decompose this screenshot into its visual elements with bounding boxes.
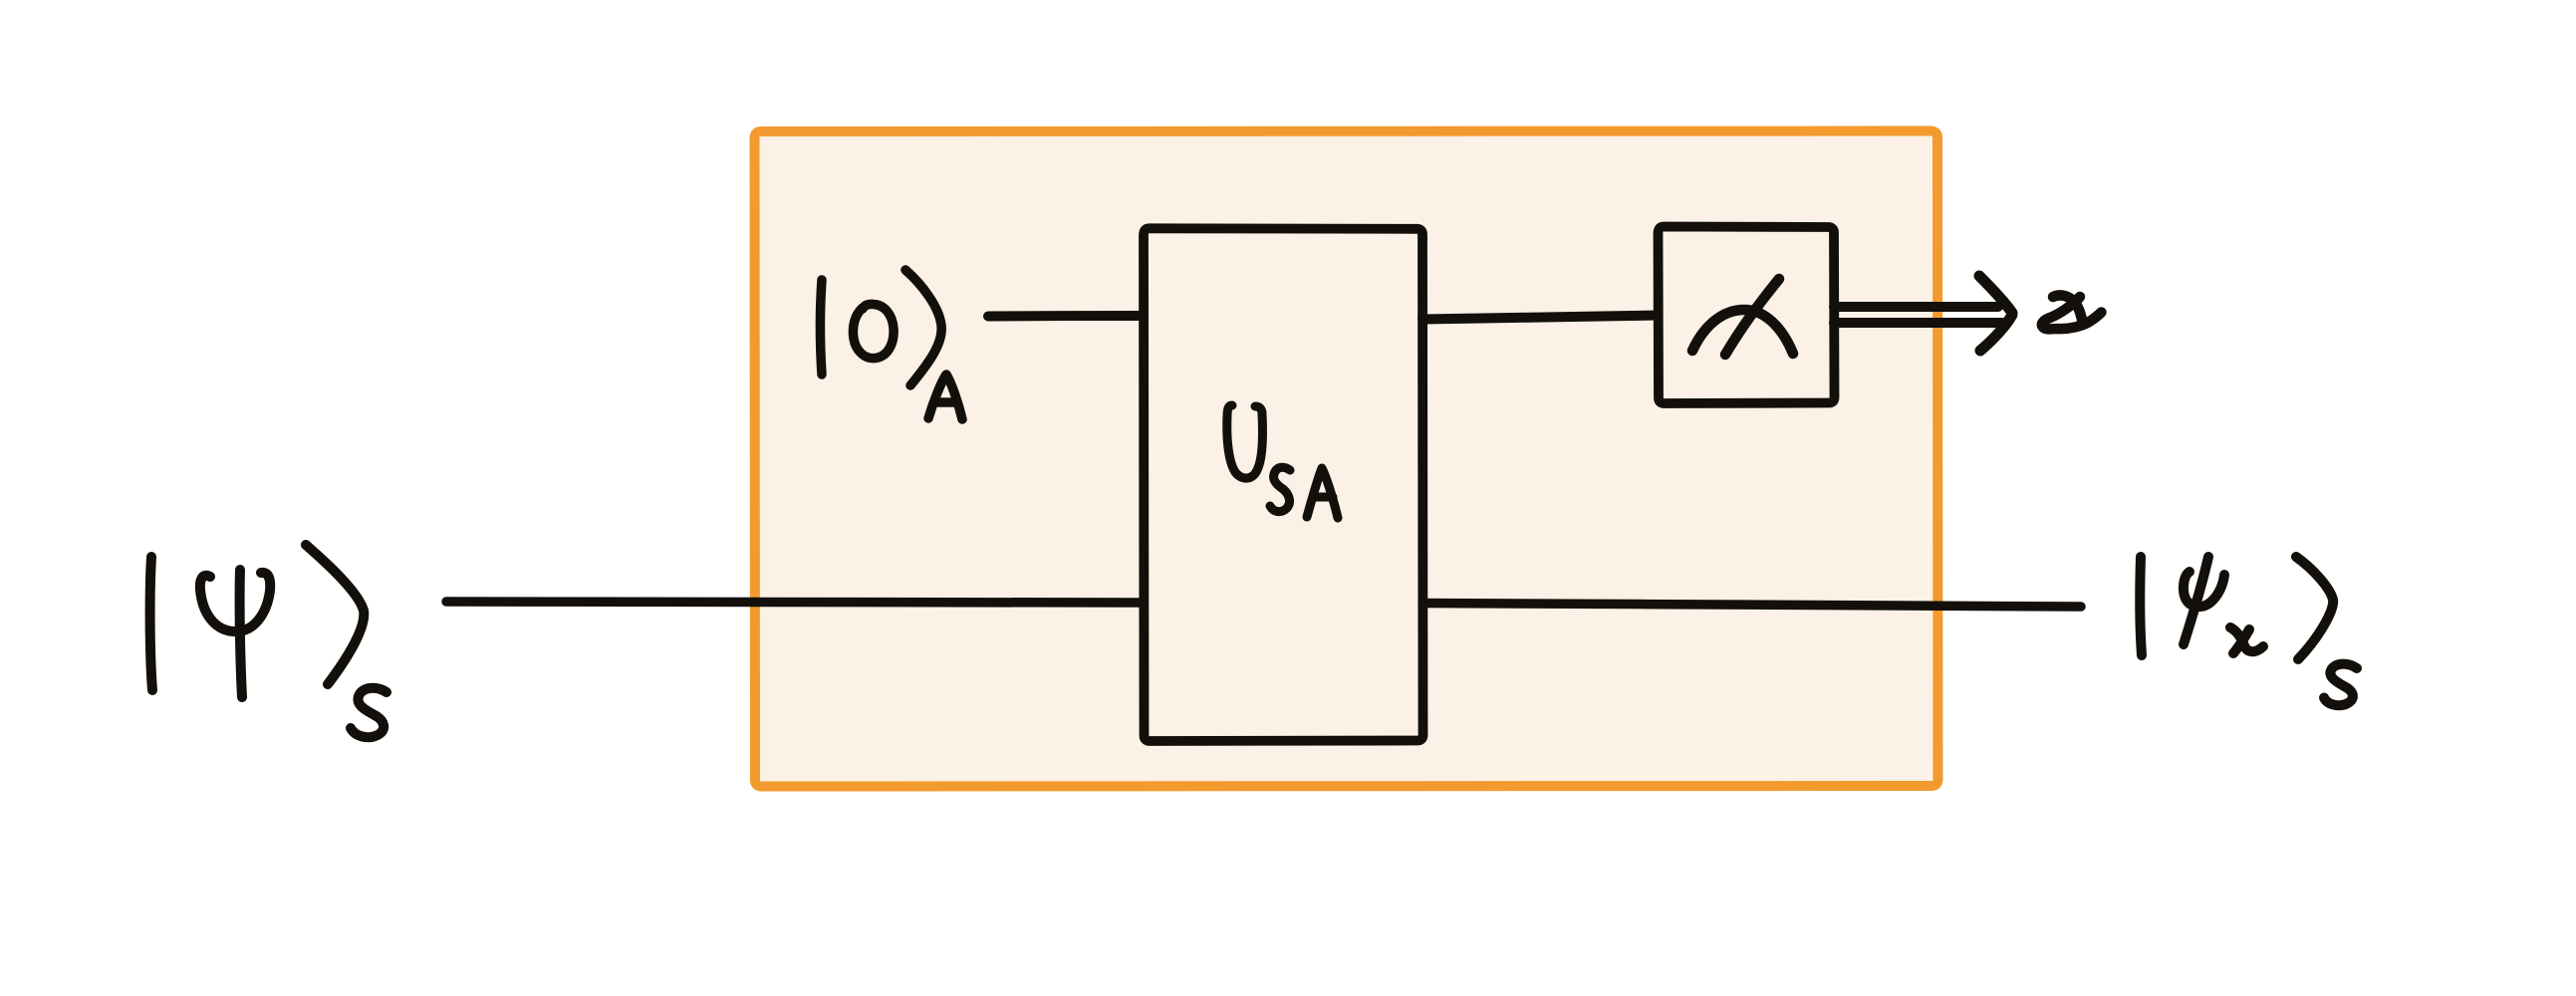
letter U	[1227, 405, 1263, 478]
right angle bracket	[306, 545, 364, 684]
system wire out	[1422, 604, 2081, 608]
classical double wire lower	[1834, 318, 2002, 328]
ket bar	[821, 280, 823, 374]
psi stem	[2184, 557, 2208, 644]
subscript x stroke 2	[2233, 629, 2249, 653]
unitary box U_SA	[1144, 228, 1423, 741]
psi bowl	[200, 573, 270, 631]
ancilla input label |0>_A	[821, 270, 963, 419]
right angle bracket	[905, 270, 941, 385]
subscript x stroke 1	[2230, 627, 2263, 651]
arrowhead upper stroke	[1979, 276, 2012, 313]
ket bar	[2140, 557, 2142, 655]
system input label |psi>_S	[150, 545, 386, 737]
psi stem	[240, 570, 242, 697]
zero	[853, 304, 894, 358]
meter needle	[1725, 279, 1779, 355]
output label |psi_x>_S	[2140, 557, 2357, 705]
subscript S	[1270, 467, 1290, 511]
classical double wire upper	[1834, 302, 1998, 312]
wire U_SA to meter	[1422, 316, 1659, 320]
subscript S	[2324, 664, 2357, 706]
classical outcome label x	[2042, 295, 2102, 329]
psi bowl	[2184, 572, 2224, 607]
subscript A legs	[1307, 468, 1338, 518]
channel enclosure box (orange)	[755, 131, 1938, 787]
subscript A legs	[928, 374, 962, 419]
ket bar	[150, 557, 152, 690]
system wire in	[446, 602, 1144, 603]
label U_SA	[1227, 405, 1338, 518]
ancilla wire to U_SA	[988, 311, 1144, 322]
right angle bracket	[2296, 557, 2333, 659]
meter dial arc	[1692, 310, 1793, 354]
measurement meter box	[1659, 227, 1835, 404]
subscript A bar	[1313, 493, 1333, 502]
subscript S	[351, 688, 386, 737]
arrowhead lower stroke	[1980, 315, 2012, 351]
subscript A bar	[935, 397, 956, 407]
